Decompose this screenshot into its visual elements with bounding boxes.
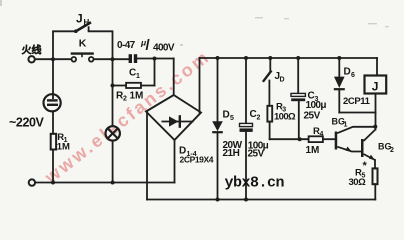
wire: C3 to node <box>298 101 300 139</box>
wire: live line left segment <box>35 58 72 60</box>
svg-text:1M: 1M <box>306 145 320 156</box>
lamp <box>106 126 120 140</box>
svg-text:100μ: 100μ <box>306 100 327 111</box>
wire: R2 left lead <box>113 85 127 87</box>
capacitor C3 <box>291 93 305 101</box>
svg-text:21H: 21H <box>223 148 240 159</box>
svg-text:4: 4 <box>320 131 324 138</box>
svg-text:D: D <box>223 110 230 121</box>
svg-text:100Ω: 100Ω <box>274 111 296 122</box>
wire: R4 to BG1 base <box>323 138 336 140</box>
svg-text:1: 1 <box>136 73 140 80</box>
svg-text:H: H <box>84 18 90 27</box>
wire: node line to R4 <box>270 138 309 140</box>
svg-text:2CP11: 2CP11 <box>343 96 371 107</box>
svg-text:1M: 1M <box>130 90 144 101</box>
svg-text:*: * <box>363 160 368 172</box>
wire: R2 right vertical up to C1 line <box>154 59 156 86</box>
relay coil J <box>365 76 387 94</box>
wire: C2 column <box>245 58 247 123</box>
wire: ground bus bottom right <box>147 199 375 201</box>
switch K <box>71 54 94 62</box>
wire: JH loop left vertical <box>53 31 76 59</box>
wire: BG2 emitter to R5 <box>374 160 376 168</box>
wire: JD lower lead to R3 <box>268 81 270 106</box>
relay contact JH <box>74 22 91 33</box>
svg-text:2: 2 <box>390 147 394 154</box>
scan specks <box>0 0 389 46</box>
wire: bridge right corner up to DC bus <box>199 58 201 113</box>
capacitor C2 <box>240 123 253 131</box>
svg-text:30Ω: 30Ω <box>349 177 367 188</box>
svg-text:25V: 25V <box>248 149 265 160</box>
wire: J coil bottom to collectors <box>375 94 377 130</box>
resistor R1 <box>51 134 56 150</box>
wire: D6-J bottom node line <box>339 112 375 114</box>
bridge internal diode <box>162 115 194 128</box>
svg-text:25V: 25V <box>304 110 321 121</box>
resistor R4 <box>309 136 323 142</box>
svg-text:6: 6 <box>351 72 355 79</box>
wire: R1 to bottom bus <box>52 150 54 183</box>
diode D6 <box>334 77 345 90</box>
svg-text:2CP19X4: 2CP19X4 <box>180 154 214 164</box>
wire: lamp column upper <box>112 86 114 127</box>
transistor BG2 <box>361 130 375 161</box>
wire: down to bridge top <box>173 59 175 96</box>
wire: C3 column upper <box>297 58 299 93</box>
wire: lamp column lower <box>112 141 114 183</box>
svg-text:J: J <box>372 79 379 93</box>
svg-text:5: 5 <box>230 115 234 122</box>
terminal: neutral <box>29 179 35 185</box>
wire: R3 to node <box>269 122 271 140</box>
svg-text:1M: 1M <box>57 142 70 153</box>
wire: J coil top lead <box>376 58 378 76</box>
svg-text:2: 2 <box>257 114 261 121</box>
resistor R2 <box>126 83 141 88</box>
wire: JD upper lead <box>269 58 271 72</box>
wire: source to R1 <box>52 111 54 134</box>
capacitor C1 <box>129 54 138 63</box>
resistor R5 <box>373 168 378 184</box>
relay contact JD <box>263 71 272 82</box>
resistor R3 <box>267 106 272 122</box>
svg-text:J: J <box>76 12 83 26</box>
svg-text:火线: 火线 <box>22 44 42 57</box>
wire: bridge left corner down to ground bus <box>146 112 148 200</box>
svg-text:400V: 400V <box>153 43 175 54</box>
terminal: live wire <box>28 56 34 62</box>
wire: DC+ top bus <box>200 57 378 59</box>
svg-text:D: D <box>280 77 285 84</box>
wire: node B down to R2 level <box>112 59 114 85</box>
wire: D6 upper lead <box>338 58 340 77</box>
wire: D6 lower lead <box>338 90 340 112</box>
wire: bridge bottom corner down <box>174 140 176 183</box>
wire: JH loop right segment and vertical <box>89 31 113 59</box>
wire: R5 to ground bus <box>374 184 376 199</box>
zener diode D5 <box>212 121 223 132</box>
svg-text:D: D <box>344 67 351 78</box>
svg-text:ybx8.cn: ybx8.cn <box>225 175 285 192</box>
wire: live line K to C1 <box>94 58 129 60</box>
wire: source column upper <box>52 59 54 94</box>
svg-text:2: 2 <box>123 96 127 103</box>
bridge rectifier D1-4 <box>146 95 201 140</box>
wire: R2 right lead <box>141 85 155 87</box>
wire: C1 to bridge jog <box>137 58 173 60</box>
svg-text:~220V: ~220V <box>9 116 45 130</box>
svg-text:1: 1 <box>344 122 348 129</box>
wire: D5 column <box>217 58 219 121</box>
transistor BG1 <box>335 127 376 152</box>
svg-text:0-47: 0-47 <box>117 40 136 51</box>
svg-text:K: K <box>79 38 87 50</box>
wire: neutral bottom bus left <box>35 182 175 184</box>
source plug symbol <box>44 94 61 111</box>
